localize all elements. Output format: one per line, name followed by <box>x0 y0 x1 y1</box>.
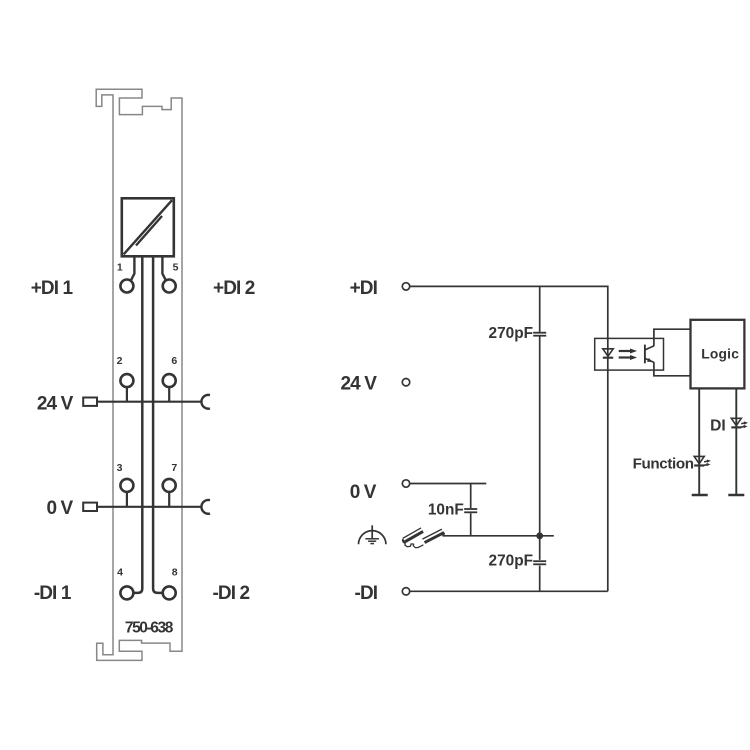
svg-text:+DI 1: +DI 1 <box>31 278 74 299</box>
svg-text:8: 8 <box>172 567 178 579</box>
svg-text:5: 5 <box>173 262 179 274</box>
svg-text:-DI 2: -DI 2 <box>213 583 250 604</box>
svg-text:270pF: 270pF <box>489 325 533 342</box>
svg-text:4: 4 <box>117 567 123 579</box>
svg-text:6: 6 <box>171 355 177 367</box>
svg-text:24 V: 24 V <box>341 373 378 394</box>
svg-text:1: 1 <box>117 262 123 274</box>
svg-text:0 V: 0 V <box>350 482 377 503</box>
svg-text:7: 7 <box>171 462 177 474</box>
svg-text:2: 2 <box>117 355 123 367</box>
svg-text:750-638: 750-638 <box>125 620 174 637</box>
svg-text:0 V: 0 V <box>46 498 73 519</box>
svg-text:10nF: 10nF <box>428 501 464 518</box>
svg-text:Function: Function <box>633 455 694 472</box>
svg-text:270pF: 270pF <box>489 553 533 570</box>
svg-text:+DI 2: +DI 2 <box>213 278 255 299</box>
svg-text:3: 3 <box>117 462 123 474</box>
svg-text:24 V: 24 V <box>37 394 74 415</box>
svg-text:-DI 1: -DI 1 <box>34 583 72 604</box>
svg-text:-DI: -DI <box>355 583 378 604</box>
svg-text:DI: DI <box>710 417 726 434</box>
svg-text:Logic: Logic <box>701 347 739 362</box>
svg-text:+DI: +DI <box>350 278 378 299</box>
